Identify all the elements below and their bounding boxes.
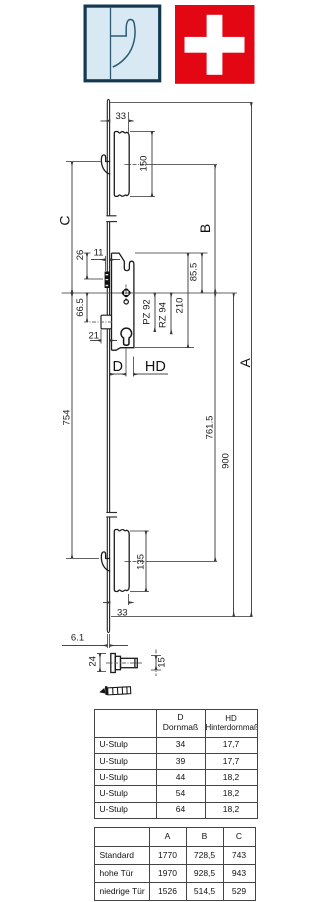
svg-text:85.5: 85.5 [189, 263, 200, 282]
svg-text:15: 15 [157, 657, 168, 668]
dimension RZ 94 [158, 293, 172, 334]
svg-text:210: 210 [175, 298, 186, 314]
swiss flag [175, 5, 255, 84]
mushroom cam side view [106, 654, 142, 673]
svg-text:A: A [237, 357, 253, 367]
dimension 85.5 [189, 253, 203, 293]
svg-text:754: 754 [62, 410, 73, 426]
dimension 66.5 [75, 293, 87, 322]
svg-text:C: C [56, 215, 72, 225]
svg-text:26: 26 [75, 250, 86, 261]
dimension 761.5 [205, 293, 216, 562]
lock case top extension line [135, 252, 208, 254]
svg-text:900: 900 [221, 453, 232, 469]
svg-text:33: 33 [117, 607, 128, 618]
faceplate middle section [106, 222, 117, 513]
mushroom cam 3D view [99, 686, 130, 695]
top keep centreline (dashes right) [125, 163, 148, 165]
svg-text:135: 135 [136, 554, 147, 570]
cylinder hole (PZ) [121, 328, 132, 345]
bottom keep centreline (dashes right) [125, 560, 148, 562]
dimension 11 [91, 247, 120, 271]
fixing hole [124, 300, 128, 304]
dimension 900 [221, 293, 234, 617]
top keep plate [114, 132, 129, 197]
DIN marking block [105, 272, 110, 289]
lock case bottom extension line [135, 347, 194, 349]
faceplate lower section [106, 517, 117, 633]
dimension 33 bottom [103, 594, 134, 618]
follower centre line [61, 292, 237, 294]
dimension A [237, 103, 253, 617]
svg-text:HD: HD [145, 359, 166, 375]
table: D / HD values [94, 709, 258, 819]
bottom hook extension line (left) [66, 558, 99, 560]
bottom reference line [111, 616, 252, 618]
svg-text:21: 21 [89, 330, 100, 341]
svg-text:150: 150 [139, 156, 150, 172]
svg-text:D: D [113, 359, 123, 375]
svg-text:66.5: 66.5 [75, 298, 86, 317]
svg-text:B: B [197, 224, 213, 233]
dimension 150 [130, 131, 155, 196]
top hook extension line (left) [66, 161, 101, 163]
svg-text:761.5: 761.5 [205, 416, 216, 440]
top hook bolt [101, 155, 110, 174]
dimension C [56, 162, 72, 293]
top reference line [110, 102, 252, 104]
dimension 24 [87, 654, 106, 672]
dimension 135 [130, 531, 149, 591]
dimension 754 [62, 293, 73, 559]
dimension 15 [151, 650, 168, 677]
dimension 21 [89, 329, 117, 343]
svg-text:24: 24 [87, 656, 98, 667]
dimension 210 [175, 253, 189, 348]
lock case outline [112, 253, 134, 350]
dimension 26 [75, 250, 103, 279]
dimension B [197, 164, 215, 292]
faceplate (Stulp) upper section [106, 99, 116, 215]
hook icon box [85, 6, 160, 81]
bottom keep plate [114, 529, 129, 591]
svg-text:11: 11 [94, 247, 104, 258]
svg-text:6.1: 6.1 [71, 633, 84, 644]
svg-text:PZ 92: PZ 92 [141, 299, 152, 324]
svg-text:RZ 94: RZ 94 [158, 302, 169, 328]
latch bolt [84, 315, 112, 329]
dimension 33 top [100, 111, 133, 133]
labels D and HD [110, 349, 168, 377]
bottom hook bolt [101, 552, 110, 571]
dimension 6.1 [62, 633, 128, 648]
dimension PZ 92 [141, 293, 155, 332]
follower nut [118, 285, 135, 301]
table: A B C values [94, 827, 256, 902]
svg-text:33: 33 [116, 111, 127, 122]
